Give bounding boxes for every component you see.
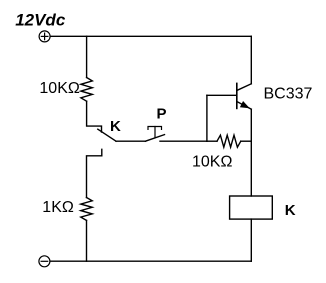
- terminal + (positive supply): [39, 31, 50, 42]
- wire node A to R2: [207, 140, 217, 142]
- svg-text:10KΩ: 10KΩ: [192, 154, 232, 171]
- svg-text:12Vdc: 12Vdc: [15, 11, 66, 30]
- resistor R1 10KOhm vertical: [81, 78, 92, 102]
- wire contact K to pushbutton P: [116, 140, 145, 142]
- wire R1 to contact K upper terminal: [87, 101, 102, 132]
- wire R3 to bottom rail: [86, 220, 88, 261]
- wire emitter down: [250, 109, 252, 196]
- wire bottom rail: [50, 260, 251, 262]
- svg-text:BC337: BC337: [264, 86, 313, 103]
- wire left branch from top rail: [86, 36, 88, 77]
- wire P to node A: [160, 140, 207, 142]
- wire R2 to emitter line: [241, 140, 252, 142]
- relay coil K rectangle: [230, 196, 273, 219]
- wire base lead: [207, 94, 237, 96]
- svg-text:1KΩ: 1KΩ: [42, 199, 74, 216]
- pushbutton P: [145, 127, 164, 142]
- resistor R2 10KOhm horizontal: [217, 135, 241, 147]
- wire collector to top rail: [250, 36, 252, 84]
- resistor R3 1KOhm vertical: [81, 198, 92, 221]
- wire top rail: [50, 35, 251, 37]
- wire relay coil to bottom rail: [250, 219, 252, 261]
- svg-text:K: K: [285, 202, 296, 219]
- svg-text:10KΩ: 10KΩ: [39, 80, 79, 97]
- transistor Q1 BC337: [237, 83, 252, 109]
- wire node A riser to base: [206, 95, 208, 141]
- svg-text:P: P: [157, 105, 167, 122]
- wire contact K lower terminal to R3: [87, 149, 102, 197]
- terminal - (negative supply): [39, 256, 50, 267]
- relay contact K blade: [98, 129, 116, 141]
- svg-text:K: K: [110, 118, 121, 135]
